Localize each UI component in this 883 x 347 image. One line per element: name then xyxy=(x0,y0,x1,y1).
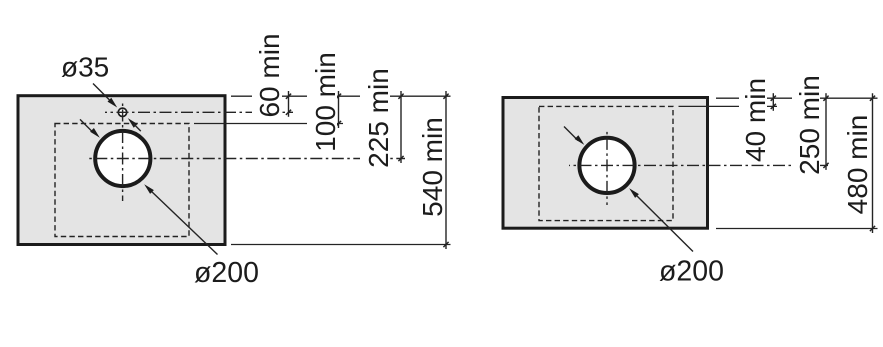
left hole circle o200 xyxy=(95,131,150,186)
dimension line 100 min xyxy=(338,91,340,128)
svg-text:60 min: 60 min xyxy=(254,33,285,117)
dimension line 250 min xyxy=(825,93,827,170)
right circle pointer arrow xyxy=(564,127,578,141)
svg-text:225 min: 225 min xyxy=(363,68,394,168)
left small hole horizontal centerline xyxy=(105,111,293,113)
svg-text:40 min: 40 min xyxy=(740,78,771,162)
svg-text:ø200: ø200 xyxy=(659,256,724,288)
tick 100 bottom xyxy=(336,121,341,126)
tick 540 top xyxy=(443,94,448,99)
tick 225 bottom xyxy=(398,156,403,161)
left small hole circle o35 xyxy=(118,108,126,116)
right hole circle o200 xyxy=(579,138,634,193)
svg-text:480 min: 480 min xyxy=(842,115,873,215)
dimension line 60 min xyxy=(288,91,290,117)
tick 480 bottom xyxy=(870,226,875,231)
text mask 250 min xyxy=(792,72,820,177)
tick 60 top xyxy=(286,94,291,99)
o35 opposite arrow tail xyxy=(134,124,141,131)
left bottom extension line xyxy=(231,244,451,246)
text mask 225 min xyxy=(360,64,390,172)
svg-text:ø35: ø35 xyxy=(61,52,109,83)
right circle pointer arrowhead xyxy=(575,135,585,145)
text mask 480 min xyxy=(840,108,868,216)
tick 60 bottom xyxy=(286,110,291,115)
right bottom extension line xyxy=(716,228,878,230)
text mask 40 min xyxy=(739,76,767,164)
left hole horizontal centerline xyxy=(89,158,405,160)
right o200 arrowhead xyxy=(629,188,639,198)
dimension line 480 min xyxy=(872,93,874,233)
left dashed cutout zone xyxy=(55,124,189,237)
left circle pointer arrow xyxy=(80,119,94,132)
svg-text:540 min: 540 min xyxy=(417,117,448,217)
left vertical centerline xyxy=(122,101,124,202)
text mask 60 min xyxy=(252,30,282,120)
right horizontal centerline xyxy=(569,164,830,166)
text mask 540 min xyxy=(412,114,444,219)
tick 40 top xyxy=(771,96,776,101)
tick 250 bottom xyxy=(823,163,828,168)
o35 opposite arrowhead xyxy=(128,118,138,128)
right vertical centerline xyxy=(606,130,608,205)
o35 leader line xyxy=(93,84,111,102)
right leader from dashed zone top edge xyxy=(679,105,778,107)
tick 225 top xyxy=(398,94,403,99)
svg-text:ø200: ø200 xyxy=(194,257,259,289)
left o200 leader line xyxy=(150,190,218,255)
dimension line 225 min xyxy=(400,91,402,163)
svg-text:250 min: 250 min xyxy=(794,75,825,175)
dimension line 540 min xyxy=(445,91,447,249)
text mask 100 min xyxy=(307,48,337,154)
right worktop panel xyxy=(503,98,708,229)
tick 40 bottom xyxy=(771,104,776,109)
left o200 arrowhead xyxy=(144,184,154,194)
dimension line 40 min xyxy=(772,93,774,111)
tick 540 bottom xyxy=(443,242,448,247)
o35 arrowhead xyxy=(108,98,118,108)
left top extension line xyxy=(231,95,451,97)
left circle pointer arrowhead xyxy=(90,128,100,138)
right o200 leader line xyxy=(635,194,693,252)
tick 480 top xyxy=(870,96,875,101)
right top extension line xyxy=(716,97,878,99)
left worktop panel xyxy=(18,96,225,245)
tick 250 top xyxy=(823,96,828,101)
left leader from dashed zone top edge xyxy=(194,123,343,125)
svg-text:100 min: 100 min xyxy=(310,52,341,152)
tick 100 top xyxy=(336,94,341,99)
right dashed cutout zone xyxy=(539,106,673,220)
